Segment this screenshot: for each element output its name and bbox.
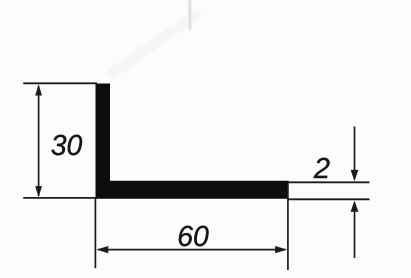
extension line bottom of 2 dim (right of leg end, lower): [289, 198, 370, 200]
extension line top-left (top of vertical leg): [23, 82, 97, 84]
arrowhead right (60 dim): [275, 246, 287, 253]
arrowhead up (2 dim): [351, 201, 359, 212]
svg-text:60: 60: [177, 221, 209, 253]
arrowhead left (60 dim): [96, 246, 108, 253]
faint watermark remnant: diagonal whitish swoosh: [107, 0, 203, 80]
svg-text:30: 30: [51, 130, 83, 162]
extension line left of 60 dim (below profile corner): [94, 199, 96, 269]
extension line bottom-left (bottom surface, left of profile): [23, 197, 96, 199]
arrow down toward 2 thickness: [354, 127, 356, 173]
dimension line 60 (horizontal, double-headed arrow): [98, 249, 286, 251]
arrowhead down (2 dim): [351, 170, 359, 181]
arrowhead up (30 dim, top): [35, 84, 42, 95]
extension line right of 60 dim (below right end of leg): [287, 182, 289, 270]
extension line top of 2 dim (right of leg end, upper): [289, 181, 370, 183]
arrow up toward 2 thickness: [354, 210, 356, 258]
dimension line 30 (vertical, double-headed arrow): [38, 86, 40, 196]
faint watermark remnant: short vertical gray streak: [189, 0, 192, 30]
arrowhead down (30 dim, bottom): [35, 186, 42, 197]
L-profile angle bar (vertical leg + horizontal leg): [96, 84, 289, 199]
svg-text:2: 2: [313, 153, 330, 185]
